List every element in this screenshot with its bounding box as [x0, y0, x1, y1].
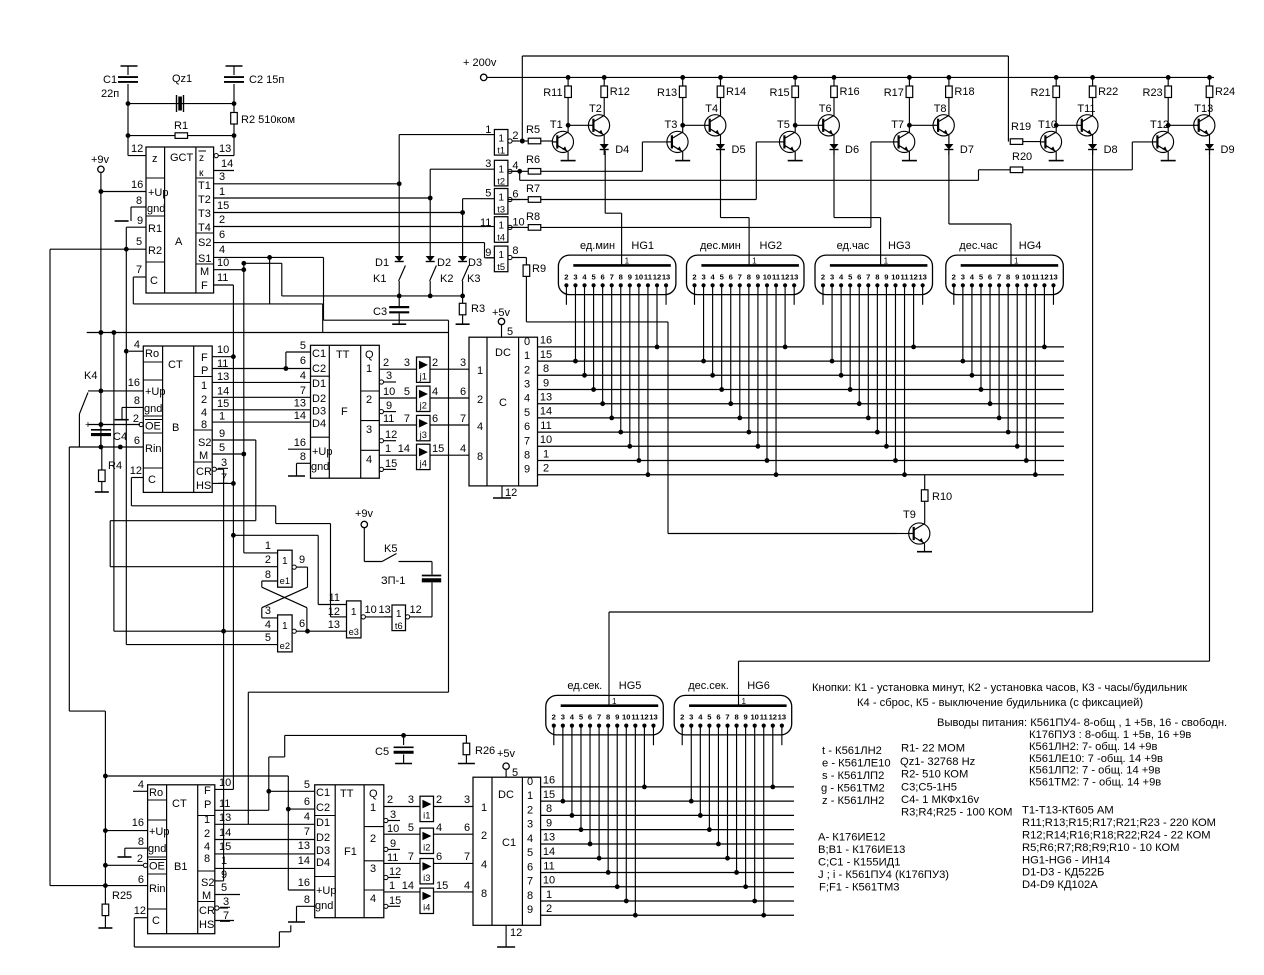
svg-text:3: 3 [527, 819, 533, 831]
svg-text:K4: K4 [84, 370, 97, 382]
svg-text:R3;R4;R25 - 100 КОМ: R3;R4;R25 - 100 КОМ [901, 807, 1012, 819]
wire base T4 [683, 124, 705, 126]
nixie tube HG3 [815, 240, 933, 295]
svg-text:1: 1 [1014, 257, 1019, 266]
svg-text:R22: R22 [1098, 86, 1118, 98]
svg-text:К561ЛН2: 7- общ. 14 +9в: К561ЛН2: 7- общ. 14 +9в [1029, 741, 1157, 753]
svg-text:CT: CT [172, 798, 187, 810]
svg-text:3: 3 [961, 272, 965, 281]
svg-text:R19: R19 [1011, 121, 1031, 133]
svg-text:B1: B1 [174, 861, 187, 873]
svg-text:2: 2 [543, 463, 549, 475]
svg-text:К561ТМ2: 7 - общ. 14 +9в: К561ТМ2: 7 - общ. 14 +9в [1029, 777, 1161, 789]
svg-text:К4 - сброс, К5 - выключение бу: К4 - сброс, К5 - выключение будильника (… [857, 697, 1143, 709]
svg-text:13: 13 [662, 272, 670, 281]
svg-text:Выводы питания: К561ПУ4- 8-общ: Выводы питания: К561ПУ4- 8-общ , 1 +5в, … [937, 717, 1227, 729]
diode D5 [716, 135, 746, 156]
junction [566, 123, 571, 128]
wire B +Up [88, 390, 143, 392]
pin 14 label [217, 386, 229, 398]
transistor T10 [1038, 119, 1062, 152]
wire Rin to B1 rail [69, 447, 105, 904]
svg-text:11: 11 [772, 272, 781, 281]
svg-text:11: 11 [631, 713, 640, 722]
pin 6 label [134, 435, 140, 447]
svg-text:j2: j2 [419, 401, 427, 411]
svg-text:F;F1 - К561ТМ3: F;F1 - К561ТМ3 [819, 882, 900, 894]
transistor T12 [1150, 119, 1174, 152]
svg-text:S2: S2 [198, 437, 211, 449]
junction [99, 422, 104, 427]
wire B1 +Up [105, 830, 147, 832]
ground T7 emitter [902, 152, 917, 161]
svg-text:T1: T1 [550, 119, 563, 131]
+9v terminal [91, 154, 110, 173]
svg-text:7: 7 [464, 851, 470, 863]
svg-text:9: 9 [543, 377, 549, 389]
svg-text:C1: C1 [312, 348, 326, 360]
wire R8 t4-T7 [508, 142, 894, 230]
pin 7 label [304, 826, 310, 838]
pin 13 label [298, 840, 310, 852]
svg-text:2: 2 [265, 554, 271, 566]
pin 4 label [219, 244, 225, 256]
svg-text:1: 1 [498, 134, 504, 145]
wire F1 C2 feed [288, 808, 314, 810]
svg-text:4: 4 [300, 370, 306, 382]
svg-text:1: 1 [219, 411, 225, 423]
svg-text:4: 4 [436, 822, 442, 834]
ground F gnd [288, 463, 311, 476]
svg-text:D5: D5 [732, 144, 746, 156]
svg-text:2: 2 [370, 833, 376, 845]
pin 11 label [383, 413, 394, 425]
svg-text:7: 7 [610, 272, 614, 281]
svg-text:6: 6 [729, 272, 733, 281]
svg-text:5: 5 [219, 442, 225, 454]
svg-text:3: 3 [386, 370, 392, 382]
svg-text:3: 3 [366, 424, 372, 436]
svg-text:J ; i - К561ПУ4 (К176ПУ3): J ; i - К561ПУ4 (К176ПУ3) [818, 869, 949, 881]
svg-text:1: 1 [389, 880, 395, 892]
svg-text:+5v: +5v [497, 748, 516, 760]
resistor R2 [231, 104, 295, 136]
svg-text:OE: OE [145, 421, 161, 433]
transistor T5 [777, 119, 801, 152]
svg-text:F: F [201, 352, 208, 364]
decoder U-C K155ИД1 [469, 337, 538, 486]
svg-text:9: 9 [756, 272, 760, 281]
nixie tube HG2 [687, 240, 805, 295]
svg-text:e - К561ЛЕ10: e - К561ЛЕ10 [822, 758, 891, 770]
pin 11 label [217, 358, 228, 370]
svg-text:e3: e3 [349, 627, 359, 637]
ground T12 emitter [1161, 152, 1176, 161]
pin 13 label [219, 812, 231, 824]
svg-text:дес.сек.: дес.сек. [688, 680, 729, 692]
resistor R21 [1031, 87, 1051, 99]
junction [517, 169, 522, 174]
svg-text:12: 12 [328, 606, 340, 618]
pin 15 label [217, 398, 229, 410]
wire Q2 out [379, 397, 416, 399]
svg-text:8: 8 [606, 713, 610, 722]
pin 2 label [137, 853, 148, 867]
svg-text:T7: T7 [891, 119, 904, 131]
resistor R11 [543, 87, 562, 99]
nixie tube HG6 [674, 680, 792, 735]
svg-text:2: 2 [219, 214, 225, 226]
pin 3 inverted stub [384, 809, 400, 823]
svg-text:T1-Т13-КТ605 АМ: T1-Т13-КТ605 АМ [1022, 805, 1114, 817]
pin 13 label [294, 398, 306, 410]
svg-text:4: 4 [366, 454, 372, 466]
svg-text:M: M [202, 890, 211, 902]
svg-text:S2: S2 [201, 877, 214, 889]
svg-text:+Up: +Up [316, 885, 337, 897]
svg-text:HG1: HG1 [631, 240, 654, 252]
junction [267, 255, 272, 260]
svg-text:9: 9 [744, 713, 748, 722]
svg-text:16: 16 [131, 179, 143, 191]
svg-text:10: 10 [387, 823, 399, 835]
svg-text:Qz1: Qz1 [172, 73, 192, 85]
svg-text:T5: T5 [777, 119, 790, 131]
transistor T3 [665, 119, 689, 152]
transistor T9 [903, 509, 930, 544]
svg-text:gnd: gnd [147, 203, 165, 215]
svg-text:12: 12 [1040, 272, 1048, 281]
wire [128, 135, 234, 137]
svg-text:8: 8 [524, 450, 530, 462]
svg-text:4: 4 [204, 841, 210, 853]
svg-text:t - К561ЛН2: t - К561ЛН2 [822, 745, 882, 757]
wire collector node [1165, 75, 1213, 132]
svg-text:6: 6 [716, 713, 720, 722]
junction [103, 828, 108, 833]
svg-text:12: 12 [510, 927, 522, 939]
svg-text:6: 6 [436, 851, 442, 863]
wire j1 out [430, 368, 469, 370]
svg-text:6: 6 [134, 435, 140, 447]
wire i1b out [434, 806, 474, 808]
junction [284, 366, 289, 371]
svg-text:F: F [204, 785, 211, 797]
svg-text:j3: j3 [419, 430, 427, 440]
svg-text:12: 12 [640, 713, 648, 722]
resistor R16 [840, 86, 860, 98]
resistor R19 [1010, 121, 1040, 144]
svg-text:D6: D6 [845, 144, 859, 156]
HG3 pins [821, 272, 927, 287]
wire Q3 out [379, 424, 416, 426]
wire HS route to e3 [233, 535, 346, 604]
wire base T2 [568, 124, 588, 126]
pin 1 label [219, 411, 225, 423]
svg-text:2: 2 [680, 713, 684, 722]
transistor T11 [1077, 103, 1098, 136]
resistor R13 [657, 87, 677, 99]
pin 1 label [389, 880, 395, 892]
switch K5 [364, 528, 397, 562]
wire B1 Rin [50, 885, 148, 887]
svg-text:7: 7 [404, 413, 410, 425]
svg-text:1: 1 [370, 802, 376, 814]
svg-text:8: 8 [734, 713, 738, 722]
svg-text:s - К561ЛП2: s - К561ЛП2 [822, 770, 884, 782]
wire +200v rail [487, 76, 1214, 78]
svg-text:1: 1 [204, 814, 210, 826]
svg-text:T6: T6 [819, 103, 832, 115]
svg-text:3: 3 [370, 863, 376, 875]
pin 15 inverted stub [384, 895, 401, 908]
wire R7 t3-T5 [508, 142, 779, 202]
ground T9 emitter [917, 543, 932, 551]
svg-text:2: 2 [552, 713, 556, 722]
svg-text:9: 9 [299, 554, 305, 566]
svg-text:8: 8 [546, 803, 552, 815]
svg-text:3: 3 [265, 605, 271, 617]
svg-text:6: 6 [464, 822, 470, 834]
svg-text:R2: R2 [148, 245, 162, 257]
svg-text:7: 7 [738, 272, 742, 281]
svg-text:дес.час: дес.час [959, 240, 998, 252]
svg-text:+: + [85, 420, 91, 431]
pin 9 inverted stub [379, 400, 396, 414]
+9v terminal alarm [355, 508, 374, 528]
svg-text:9: 9 [524, 464, 530, 476]
capacitor C4 [85, 420, 127, 447]
svg-text:11: 11 [760, 713, 769, 722]
HG5 pins [552, 713, 658, 728]
svg-text:15: 15 [543, 789, 555, 801]
wire R9 to T9 base [526, 276, 897, 533]
junction [124, 247, 129, 252]
pin 4 label [133, 779, 148, 791]
svg-text:16: 16 [294, 437, 306, 449]
junction [428, 196, 433, 201]
svg-text:1: 1 [485, 124, 491, 136]
svg-text:4: 4 [265, 619, 271, 631]
pin 13 label [219, 143, 231, 155]
svg-text:gnd: gnd [144, 403, 162, 415]
pin 16 label [131, 179, 143, 191]
gate t1 [485, 124, 520, 156]
svg-text:7: 7 [300, 385, 306, 397]
svg-text:13: 13 [294, 398, 306, 410]
svg-text:С3;С5-1Н5: С3;С5-1Н5 [901, 782, 957, 794]
wire base T8 [909, 124, 933, 126]
resistor R25 [98, 890, 132, 928]
svg-text:к: к [199, 168, 204, 179]
svg-text:TT: TT [336, 349, 350, 361]
wire j2 out [430, 397, 469, 399]
svg-text:t3: t3 [497, 205, 505, 215]
svg-text:9: 9 [1015, 272, 1019, 281]
HG4 pins [952, 272, 1058, 287]
svg-text:8: 8 [481, 888, 487, 900]
wire B OE [89, 424, 141, 426]
switch K1 [373, 266, 405, 296]
svg-text:F1: F1 [344, 846, 357, 858]
svg-text:14: 14 [398, 443, 410, 455]
svg-text:2: 2 [477, 394, 483, 406]
svg-text:1: 1 [625, 257, 630, 266]
+200v terminal [463, 57, 497, 81]
svg-text:5: 5 [265, 632, 271, 644]
svg-text:11: 11 [383, 413, 394, 425]
svg-text:1: 1 [282, 621, 288, 632]
svg-text:10: 10 [635, 272, 643, 281]
pin 6 label [219, 229, 225, 241]
wire collector node [565, 75, 608, 132]
ground T3 emitter [675, 152, 690, 161]
svg-text:T2: T2 [589, 103, 602, 115]
wire B S2 route [110, 440, 277, 567]
wire base T13 [1168, 124, 1194, 126]
gate t5 [485, 245, 520, 272]
svg-text:T4: T4 [705, 103, 718, 115]
wire M line [214, 269, 244, 271]
switch K3 [462, 266, 480, 296]
junction [118, 445, 123, 450]
pin 5 label [219, 442, 225, 454]
svg-text:1: 1 [265, 540, 271, 552]
junction [112, 330, 117, 335]
resistor R8 label [526, 211, 540, 223]
wire F1 C1 feed [269, 790, 315, 792]
wire R5 t1-T1 [520, 138, 552, 144]
svg-text:9: 9 [221, 869, 227, 881]
svg-text:14: 14 [402, 880, 414, 892]
junction [428, 294, 433, 299]
svg-text:13: 13 [790, 272, 798, 281]
svg-text:3: 3 [404, 357, 410, 369]
svg-text:12: 12 [769, 713, 777, 722]
svg-text:gnd: gnd [148, 843, 166, 855]
svg-text:HG4: HG4 [1019, 240, 1042, 252]
svg-text:1: 1 [527, 790, 533, 802]
wire B1 P11 [215, 809, 269, 811]
pin 13 label [217, 371, 229, 383]
wire D6 to HG3 anode [834, 151, 881, 266]
svg-text:K2: K2 [440, 273, 453, 285]
junction [520, 139, 525, 144]
svg-text:2: 2 [204, 828, 210, 840]
svg-text:gnd: gnd [311, 461, 329, 473]
svg-text:16: 16 [540, 335, 552, 347]
svg-text:D4-D9 КД102А: D4-D9 КД102А [1022, 879, 1098, 891]
svg-text:D1: D1 [316, 817, 330, 829]
wire B1 OE [105, 864, 143, 866]
pin 12 label [130, 465, 142, 477]
svg-text:8: 8 [747, 272, 751, 281]
svg-text:5: 5 [136, 236, 142, 248]
svg-text:+5v: +5v [492, 307, 511, 319]
wire A R1 pin9 [126, 226, 146, 228]
ground A gnd pin8 [115, 207, 146, 221]
svg-text:13: 13 [328, 619, 340, 631]
wire collector node [906, 75, 952, 132]
pin 8 label [136, 195, 142, 207]
wire e3 out [365, 604, 392, 617]
wire output bus top [538, 347, 1065, 475]
resistor R6 label [526, 154, 540, 166]
svg-text:t1: t1 [497, 146, 505, 156]
wire D8 to HG5 anode [609, 151, 1093, 706]
svg-text:4: 4 [201, 407, 207, 419]
svg-text:+9v: +9v [355, 508, 374, 520]
crystal Qz1 [172, 73, 192, 112]
svg-text:14: 14 [298, 855, 310, 867]
svg-text:Q: Q [365, 349, 374, 361]
wire B1-F1 data lines [215, 824, 315, 868]
pin 14 label [294, 410, 306, 422]
junction [286, 807, 291, 812]
svg-text:z: z [152, 153, 158, 165]
pin 16 label [288, 437, 311, 449]
junction [99, 445, 104, 450]
svg-text:13: 13 [217, 371, 229, 383]
svg-text:9: 9 [628, 272, 632, 281]
svg-text:3: 3 [223, 896, 229, 908]
gate i1 bottom [408, 794, 470, 822]
junction [103, 774, 108, 779]
pin 10 label [387, 823, 399, 835]
capacitor C5 [375, 735, 414, 763]
wire j3 out [430, 424, 469, 426]
svg-text:z: z [199, 153, 204, 164]
ground B1 gnd [118, 848, 148, 857]
pin 4 label [300, 370, 306, 382]
svg-text:11: 11 [543, 860, 554, 872]
wire S1 long vertical [248, 320, 448, 824]
svg-text:GCT: GCT [170, 152, 194, 164]
junction [231, 533, 236, 538]
pin 6 label [138, 874, 144, 886]
svg-text:7: 7 [997, 272, 1001, 281]
svg-text:3: 3 [524, 379, 530, 391]
svg-text:D8: D8 [1104, 144, 1118, 156]
svg-text:1: 1 [201, 380, 207, 392]
svg-text:12: 12 [131, 143, 143, 155]
svg-text:+Up: +Up [312, 446, 333, 458]
svg-text:D2: D2 [312, 393, 326, 405]
svg-text:13: 13 [379, 604, 391, 616]
svg-text:C: C [150, 275, 158, 287]
svg-text:C: C [152, 915, 160, 927]
svg-text:0: 0 [527, 776, 533, 788]
wire D7 to HG4 anode [949, 151, 1011, 266]
svg-text:1: 1 [385, 443, 391, 455]
svg-text:i4: i4 [423, 903, 430, 913]
svg-text:C: C [148, 474, 156, 486]
wire T1 line [214, 135, 487, 184]
pin 5 label [221, 882, 227, 894]
resistor R20 [1010, 142, 1152, 173]
pin 2 label [387, 794, 393, 806]
pin 6 label [300, 355, 306, 367]
svg-text:11: 11 [901, 272, 910, 281]
svg-text:7: 7 [136, 264, 142, 276]
pin 1 label [221, 855, 227, 867]
svg-text:2: 2 [952, 272, 956, 281]
wire T3 line [214, 199, 487, 213]
junction [232, 101, 237, 106]
pin 10 label [217, 344, 229, 356]
svg-text:t2: t2 [497, 176, 505, 186]
wire B1 C12 route [134, 918, 290, 947]
